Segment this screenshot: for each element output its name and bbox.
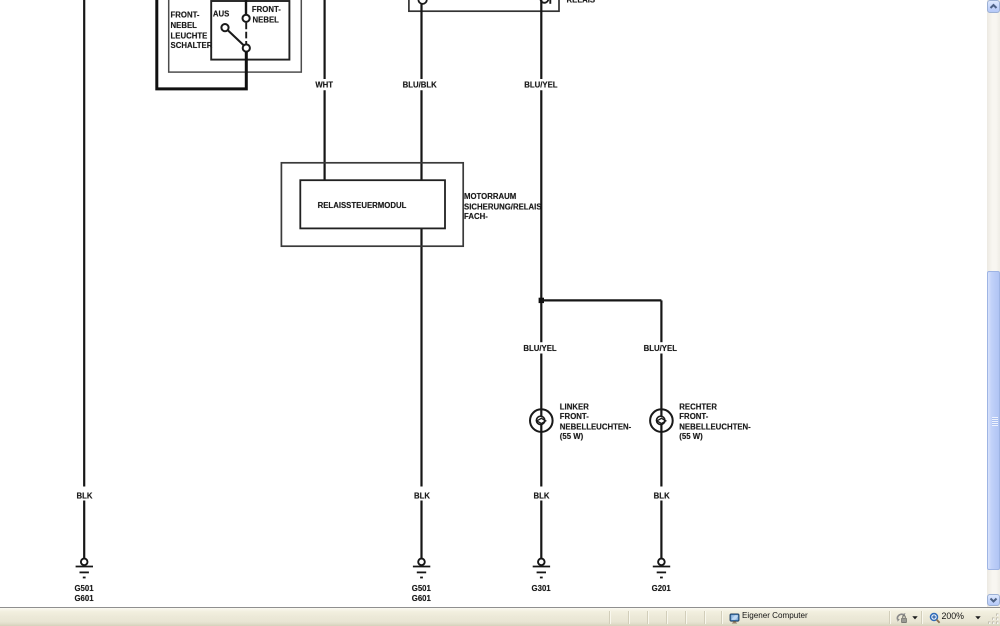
relay module inner box RELAISSTEUERMODUL xyxy=(300,180,445,228)
resize grip xyxy=(988,613,1000,626)
svg-text:LEUCHTE: LEUCHTE xyxy=(171,32,208,41)
dropdown arrow (mode) xyxy=(912,616,918,620)
switch pivot circle (bottom) xyxy=(243,44,250,51)
svg-text:(55 W): (55 W) xyxy=(560,432,584,441)
separator before zoom xyxy=(921,611,922,624)
svg-text:BLU/BLK: BLU/BLK xyxy=(403,81,438,90)
magnifier zoom icon xyxy=(929,611,941,624)
svg-text:NEBEL: NEBEL xyxy=(253,16,280,25)
svg-text:RELAIS: RELAIS xyxy=(567,0,596,4)
wire W7 BLU/YEL (right branch down to right lamp) xyxy=(660,300,662,409)
svg-text:G201: G201 xyxy=(652,584,672,593)
label LINKER FRONT-NEBELLEUCHTEN (55 W) xyxy=(560,402,632,441)
switch blade (AUS position, diagonal) xyxy=(228,30,244,45)
scrollbar up button xyxy=(987,0,1000,13)
wire W3 WHT (switch output to relay control module) xyxy=(324,0,326,180)
svg-text:BLU/YEL: BLU/YEL xyxy=(523,344,557,353)
svg-text:BLK: BLK xyxy=(414,491,430,500)
wire W5 BLU/YEL (from connector down to junction and left lamp) xyxy=(540,0,542,410)
svg-text:NEBEL: NEBEL xyxy=(171,21,198,30)
svg-text:G601: G601 xyxy=(74,594,94,603)
wire W6 BLK below left lamp to ground G301 xyxy=(540,424,542,558)
connector box at top (relay block) xyxy=(409,0,559,11)
connector pin line xyxy=(549,0,551,4)
connector half-circle right pin xyxy=(540,0,548,3)
status bar xyxy=(0,607,1000,626)
scrollbar thumb xyxy=(987,271,1000,570)
switch inner box xyxy=(211,1,289,60)
label 200% xyxy=(942,611,965,621)
wire W8 BLK below right lamp to ground G201 xyxy=(660,424,662,558)
svg-text:MOTORRAUM: MOTORRAUM xyxy=(464,192,516,201)
wire W1 BLK (far left, to ground G501/G601) xyxy=(83,0,85,558)
svg-text:SCHALTER: SCHALTER xyxy=(171,41,213,50)
label Eigener Computer xyxy=(742,611,808,620)
label MOTORRAUM SICHERUNG/RELAIS FACH- xyxy=(464,192,542,221)
protected-mode icon (curved arrow + lock) xyxy=(895,612,909,624)
wire W2 thick L from switch pivot down-left and up xyxy=(157,0,247,89)
svg-text:FRONT-: FRONT- xyxy=(252,5,281,14)
wire into switch from top xyxy=(245,0,247,15)
svg-text:BLU/YEL: BLU/YEL xyxy=(524,81,558,90)
junction dot xyxy=(539,298,544,303)
ground symbol G501/G601 left xyxy=(76,559,93,578)
label FRONT-NEBEL LEUCHTE SCHALTER xyxy=(171,11,213,51)
switch contact circle FRONT-NEBEL (top) xyxy=(243,15,250,22)
connector half-circle left pin xyxy=(418,0,426,4)
svg-text:BLU/YEL: BLU/YEL xyxy=(644,344,678,353)
ground symbol G201 xyxy=(653,559,670,578)
svg-text:G501: G501 xyxy=(74,584,94,593)
My Computer zone icon xyxy=(729,612,740,623)
svg-text:G501: G501 xyxy=(412,584,432,593)
switch alternate position (dashed) xyxy=(245,23,247,44)
svg-text:RECHTER: RECHTER xyxy=(679,402,717,411)
svg-text:LINKER: LINKER xyxy=(560,402,589,411)
svg-text:WHT: WHT xyxy=(315,80,333,89)
svg-text:G601: G601 xyxy=(412,594,432,603)
status pane separators xyxy=(609,611,610,624)
svg-text:FRONT-: FRONT- xyxy=(679,412,708,421)
vertical scrollbar xyxy=(987,0,1000,607)
ground symbol G501/G601 (center) xyxy=(413,559,430,578)
svg-text:(55 W): (55 W) xyxy=(679,432,703,441)
svg-text:FRONT-: FRONT- xyxy=(171,11,200,20)
svg-text:NEBELLEUCHTEN-: NEBELLEUCHTEN- xyxy=(679,422,751,431)
label RECHTER FRONT-NEBELLEUCHTEN (55 W) xyxy=(679,402,751,441)
wire branch (horizontal) xyxy=(541,299,661,301)
fog light switch outer box (FRONT-NEBEL LEUCHTE SCHALTER) xyxy=(169,0,302,72)
lamp RECHTER FRONT-NEBELLEUCHTEN (right fog lamp) xyxy=(650,409,673,432)
relay module outer box (MOTORRAUM SICHERUNG/RELAIS FACH) xyxy=(281,163,463,246)
dropdown arrow (zoom) xyxy=(975,616,981,620)
svg-text:BLK: BLK xyxy=(654,491,670,500)
svg-text:FRONT-: FRONT- xyxy=(560,412,589,421)
svg-text:NEBELLEUCHTEN-: NEBELLEUCHTEN- xyxy=(560,422,632,431)
svg-text:BLK: BLK xyxy=(533,491,549,500)
svg-text:AUS: AUS xyxy=(213,10,229,19)
svg-text:SICHERUNG/RELAIS: SICHERUNG/RELAIS xyxy=(464,203,542,212)
switch contact circle AUS xyxy=(221,24,228,31)
svg-text:G301: G301 xyxy=(532,584,552,593)
ground symbol G301 xyxy=(533,559,550,578)
svg-text:FACH-: FACH- xyxy=(464,212,488,221)
svg-text:BLK: BLK xyxy=(76,491,92,500)
lamp LINKER FRONT-NEBELLEUCHTEN (left fog lamp) xyxy=(530,409,553,432)
separator before mode icon xyxy=(889,611,890,624)
scrollbar down button xyxy=(987,594,1000,606)
label FRONT-NEBEL (switch position) xyxy=(252,5,281,25)
svg-text:RELAISSTEUERMODUL: RELAISSTEUERMODUL xyxy=(318,201,407,210)
wire W4 BLU/BLK (from connector through relay module to ground) xyxy=(420,4,422,559)
